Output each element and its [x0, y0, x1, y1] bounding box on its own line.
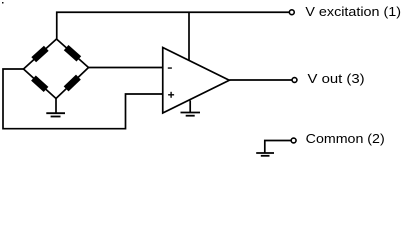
svg-text:Common (2): Common (2) — [306, 131, 385, 146]
svg-text:V excitation (1): V excitation (1) — [305, 4, 401, 19]
svg-text:V out (3): V out (3) — [308, 71, 365, 86]
